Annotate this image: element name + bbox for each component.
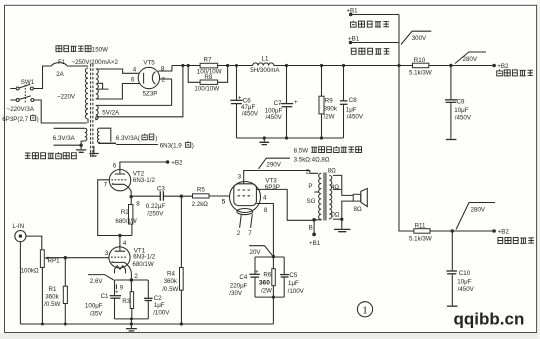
capacitor C3 — [133, 185, 182, 217]
resistor R9 — [319, 64, 338, 138]
svg-text:R4: R4 — [167, 271, 175, 278]
svg-text:+: + — [255, 268, 259, 275]
svg-text:R1: R1 — [49, 286, 57, 293]
label: power transformer 150W — [56, 46, 108, 54]
capacitor C5 — [280, 257, 305, 297]
transformer T1 HV secondary winding — [96, 69, 99, 99]
svg-text:~250V/200mA×2: ~250V/200mA×2 — [72, 59, 119, 66]
svg-text:R9: R9 — [325, 98, 333, 105]
svg-text:100kΩ: 100kΩ — [21, 267, 39, 274]
ground symbol under core — [89, 154, 98, 157]
svg-text:C9: C9 — [457, 98, 465, 105]
svg-text:1μF: 1μF — [288, 280, 299, 287]
vacuum tube VT2 (6N3 half) — [104, 163, 156, 208]
wire: main ground bus — [20, 323, 273, 325]
svg-text:+B2: +B2 — [171, 160, 183, 167]
svg-text:R10: R10 — [414, 57, 426, 64]
svg-text:10μF: 10μF — [454, 107, 468, 114]
wire: wiper to VT1 grid — [48, 257, 109, 259]
wire: primary bottom to +B1 — [314, 220, 321, 233]
svg-text:/250V: /250V — [147, 211, 164, 218]
svg-text:6P3P: 6P3P — [265, 184, 280, 191]
svg-text:/450V: /450V — [347, 113, 364, 120]
resistor R1 — [44, 256, 67, 324]
wire: network bottom bus to ground — [255, 297, 284, 324]
wire: HV bottom to VT5 pin 6 — [96, 84, 139, 100]
svg-text:1μF: 1μF — [154, 302, 165, 309]
svg-text:R7: R7 — [204, 57, 212, 64]
wire: switch to fuse and primary — [33, 66, 88, 123]
resistor R3 — [122, 280, 133, 319]
svg-text:P: P — [308, 183, 312, 190]
svg-text:290V: 290V — [266, 161, 281, 168]
ground symbol on filter bus — [263, 138, 265, 142]
svg-text:0Ω: 0Ω — [331, 212, 339, 219]
svg-text:2: 2 — [306, 169, 310, 176]
node: B junction — [312, 218, 316, 222]
svg-text:): ) — [155, 135, 157, 142]
svg-text:): ) — [192, 142, 194, 149]
6.3V/3A left winding — [53, 128, 87, 147]
node: B+ at VT5 — [181, 64, 184, 67]
svg-text:/100V: /100V — [153, 310, 170, 317]
secondary 8 ohm tap — [333, 175, 353, 195]
svg-text:280V: 280V — [463, 56, 478, 63]
svg-text:5Z3P: 5Z3P — [143, 91, 158, 98]
label: whole machine main grounding point — [25, 152, 76, 159]
capacitor C10 — [446, 231, 474, 306]
vacuum tube VT5 — [131, 60, 166, 98]
input jack L-IN — [12, 223, 26, 242]
svg-text:/450V: /450V — [266, 114, 283, 121]
resistor R11 — [414, 229, 430, 234]
node: C3/R5/R4 junction — [180, 195, 183, 198]
speaker — [353, 188, 367, 213]
voltage marker 280V (lower) — [456, 203, 495, 230]
svg-text:R11: R11 — [415, 222, 426, 229]
svg-text:2: 2 — [134, 273, 138, 280]
node: +B2 right channel output — [492, 228, 534, 243]
capacitor C7 — [265, 64, 298, 138]
svg-text:8.5W: 8.5W — [294, 147, 309, 154]
node: +B2 feed to VT2 plate — [166, 160, 183, 167]
svg-text:R5: R5 — [197, 186, 205, 193]
svg-text:280V: 280V — [471, 206, 486, 213]
svg-text:+B1: +B1 — [348, 35, 360, 42]
svg-text:8: 8 — [264, 207, 268, 214]
svg-text:C2: C2 — [154, 295, 162, 302]
svg-text:R2: R2 — [121, 209, 129, 216]
wire: VT5 pin 8 to B+ rail — [158, 66, 172, 72]
resistor R2 — [115, 197, 136, 236]
svg-text:8Ω: 8Ω — [328, 167, 336, 174]
svg-text:6N3-1/2: 6N3-1/2 — [133, 177, 156, 184]
svg-text:+B1: +B1 — [309, 240, 321, 247]
svg-text:6: 6 — [113, 163, 117, 170]
svg-text:390k: 390k — [324, 105, 338, 112]
svg-text:2.2kΩ: 2.2kΩ — [192, 201, 209, 208]
svg-text:1: 1 — [362, 304, 368, 316]
svg-text:360k: 360k — [45, 293, 59, 300]
svg-text:/450V: /450V — [458, 286, 475, 293]
svg-text:100μF: 100μF — [85, 302, 103, 309]
label: 8.5W single-ended output transformer — [294, 146, 362, 154]
svg-text:5.1k/3W: 5.1k/3W — [409, 70, 432, 77]
svg-text:C3: C3 — [157, 185, 165, 192]
svg-text:680/1W: 680/1W — [132, 261, 153, 268]
vacuum tube VT3 (6P3P) — [222, 173, 280, 214]
svg-text:B: B — [309, 225, 313, 232]
wire: speaker return to 0 ohm and ground — [342, 201, 353, 229]
svg-text:5H/300mA: 5H/300mA — [250, 67, 280, 74]
svg-text:/2W: /2W — [324, 113, 335, 120]
transformer T1 primary winding — [85, 68, 88, 123]
transformer T1 core — [90, 64, 92, 158]
svg-text:0.22μF: 0.22μF — [146, 203, 166, 210]
resistor R4 — [162, 196, 183, 324]
svg-text:/0.5W: /0.5W — [44, 301, 60, 308]
capacitor C9 — [445, 66, 472, 140]
svg-text:8: 8 — [161, 66, 165, 73]
svg-text:6.3V/3A: 6.3V/3A — [53, 135, 76, 142]
wire: VT3 cathode (pin 8) down — [256, 204, 273, 257]
resistor R7 — [200, 63, 218, 68]
wire: network top bus — [255, 256, 284, 258]
node: +B1 left channel feed — [346, 7, 399, 27]
svg-text:9: 9 — [120, 284, 124, 291]
svg-text:/0.5W: /0.5W — [162, 286, 178, 293]
resistor R8 parallel branch — [188, 66, 227, 83]
svg-text:C8: C8 — [349, 97, 357, 104]
svg-text:R3: R3 — [122, 298, 130, 305]
wire: 5V bottom to B+ node — [96, 66, 183, 117]
capacitor C6 — [230, 64, 259, 138]
svg-text:100/10W: 100/10W — [194, 86, 219, 93]
wire: VT3 screen (pin 4) to B — [256, 189, 314, 220]
inductor L1 — [253, 63, 274, 66]
wire: HV top to VT5 pin 4 — [96, 69, 139, 73]
secondary 4 ohm tap stub — [333, 188, 341, 190]
svg-text:C7: C7 — [274, 100, 282, 107]
svg-text:5: 5 — [222, 198, 226, 205]
svg-text:5.1k/3W: 5.1k/3W — [409, 236, 432, 243]
capacitor C2 — [144, 280, 170, 319]
core ground stub — [93, 146, 95, 153]
resistor R10 — [413, 63, 429, 67]
capacitor C4 — [229, 257, 260, 297]
svg-text:8: 8 — [136, 201, 140, 208]
svg-text:220μF: 220μF — [230, 282, 248, 289]
output transformer secondary winding — [329, 175, 331, 219]
svg-text:6N3-1/2: 6N3-1/2 — [133, 254, 156, 261]
switch SW1 — [16, 79, 35, 103]
svg-text:150W: 150W — [92, 47, 108, 54]
node: VT2 cathode — [130, 195, 133, 198]
svg-text:L-IN: L-IN — [12, 223, 24, 230]
svg-text:2A: 2A — [56, 71, 64, 78]
svg-text:3: 3 — [105, 250, 109, 257]
potentiometer RP1 — [21, 250, 60, 324]
svg-text:8Ω: 8Ω — [354, 206, 362, 213]
wire: filter ground bus — [237, 137, 344, 139]
output transformer primary winding — [319, 173, 322, 220]
svg-text:L1: L1 — [262, 55, 269, 62]
svg-text:C5: C5 — [289, 272, 297, 279]
svg-text:C1: C1 — [101, 293, 109, 300]
svg-text:+B2: +B2 — [497, 63, 509, 70]
6.3V/3A plug winding — [97, 128, 157, 143]
svg-text:20V: 20V — [250, 249, 262, 256]
resistor R6 — [259, 257, 275, 298]
wire: VT3 plate to output transformer — [244, 171, 318, 184]
svg-text:360k: 360k — [164, 278, 178, 285]
svg-text:300V: 300V — [412, 35, 427, 42]
svg-text:~220V/3A: ~220V/3A — [7, 106, 35, 113]
HV center tap — [98, 83, 109, 89]
wire: 5V top to VT5 pin 2 return — [96, 79, 172, 105]
wire: jack sleeve to ground bus — [19, 242, 21, 324]
svg-text:7: 7 — [104, 182, 108, 189]
node: cathode junction — [272, 255, 275, 258]
svg-text:+: + — [238, 94, 242, 101]
svg-text:6P3P(2,7: 6P3P(2,7 — [2, 116, 28, 123]
svg-text:C10: C10 — [459, 270, 471, 277]
svg-text:R6: R6 — [263, 272, 271, 279]
wire: jack tip to RP1 — [26, 236, 42, 250]
voltage marker 2.6V — [88, 275, 114, 286]
svg-text:R8: R8 — [204, 74, 212, 81]
fuse F1 — [52, 63, 68, 66]
secondary 0 ohm tap — [333, 218, 342, 220]
svg-text:/2W: /2W — [261, 287, 272, 294]
node: VT1 cathode — [130, 278, 134, 282]
svg-text:2.6V: 2.6V — [90, 278, 104, 285]
node: 280V junction — [449, 64, 452, 67]
transformer T1 5V winding — [96, 105, 98, 119]
chassis ground symbol on bus — [130, 324, 132, 328]
svg-text:/100V: /100V — [288, 288, 305, 295]
ground symbol under speaker — [334, 229, 350, 231]
wire: VT2 grid — [98, 180, 132, 236]
svg-text:6N3(1,9: 6N3(1,9 — [160, 142, 183, 149]
wire: VT5 pin 2 down — [159, 78, 171, 80]
svg-text:6.3V/3A(: 6.3V/3A( — [116, 135, 141, 142]
resistor R5 — [181, 186, 229, 208]
svg-text:qqibb.cn: qqibb.cn — [454, 309, 525, 328]
wire: +B1 riser to rail and down to R11 — [399, 15, 414, 232]
node: VT1 plate junction — [118, 234, 121, 237]
svg-text:/30V: /30V — [229, 290, 243, 297]
svg-text:4: 4 — [263, 194, 267, 201]
voltage marker 280V (top) — [455, 52, 486, 64]
svg-text:SW1: SW1 — [21, 79, 35, 86]
svg-text:2: 2 — [237, 230, 241, 237]
node: +B1 terminal — [312, 233, 316, 237]
ground: main ground point — [80, 145, 82, 149]
SG tap stub — [314, 191, 318, 193]
capacitor C1 — [85, 280, 121, 319]
svg-text:10μF: 10μF — [457, 278, 471, 285]
svg-text:C4: C4 — [239, 274, 247, 281]
svg-text:5V/2A: 5V/2A — [102, 109, 120, 116]
svg-text:/450V: /450V — [242, 110, 259, 117]
wire: +B2 to VT2 plate — [120, 162, 168, 169]
svg-text:/450V: /450V — [455, 115, 472, 122]
svg-text:+: + — [294, 99, 298, 106]
voltage marker 20V — [249, 246, 273, 257]
voltage marker 290V — [259, 158, 291, 169]
svg-text:/35V: /35V — [90, 311, 104, 318]
svg-text:2: 2 — [162, 77, 166, 84]
svg-text:RP1: RP1 — [48, 257, 61, 264]
svg-text:F1: F1 — [58, 59, 66, 66]
svg-text:4: 4 — [123, 240, 127, 247]
wire: R11 to +B2 — [430, 230, 494, 232]
svg-text:4Ω: 4Ω — [331, 184, 339, 191]
node: +B2 left channel output — [492, 63, 533, 76]
svg-text:+B2: +B2 — [498, 228, 510, 235]
wire: cathode network top bus — [115, 279, 149, 281]
vacuum tube VT1 (6N3 half) — [105, 236, 156, 281]
svg-text:VT5: VT5 — [143, 60, 155, 67]
wire: cathode network bottom bus — [115, 319, 149, 324]
svg-text:+B1: +B1 — [346, 7, 358, 14]
svg-text:680/1W: 680/1W — [115, 218, 136, 225]
svg-text:~220V: ~220V — [57, 93, 76, 100]
svg-text:SG: SG — [307, 198, 316, 205]
svg-text:): ) — [37, 116, 39, 123]
svg-text:4: 4 — [133, 66, 137, 73]
node: 280V junction lower — [451, 229, 454, 232]
svg-text:3: 3 — [238, 173, 242, 180]
output transformer core — [324, 173, 326, 221]
capacitor C8 — [340, 64, 364, 138]
VT3 pins 2 and 7 stubs — [240, 214, 253, 228]
node: +B1 right channel feed — [348, 35, 399, 54]
wire: heater lead to 6N3 — [116, 144, 158, 146]
VT1 pin 9 heater stub — [115, 284, 117, 289]
svg-text:7: 7 — [248, 230, 252, 237]
svg-text:6: 6 — [131, 77, 135, 84]
circled figure number 1 — [357, 302, 372, 317]
svg-text:3.5kΩ:4Ω,8Ω: 3.5kΩ:4Ω,8Ω — [294, 157, 330, 164]
AC input terminal stubs — [10, 89, 16, 101]
svg-text:360: 360 — [259, 279, 270, 286]
voltage marker 300V — [401, 31, 431, 44]
B+ rail — [172, 65, 494, 67]
svg-text:+: + — [115, 289, 119, 296]
